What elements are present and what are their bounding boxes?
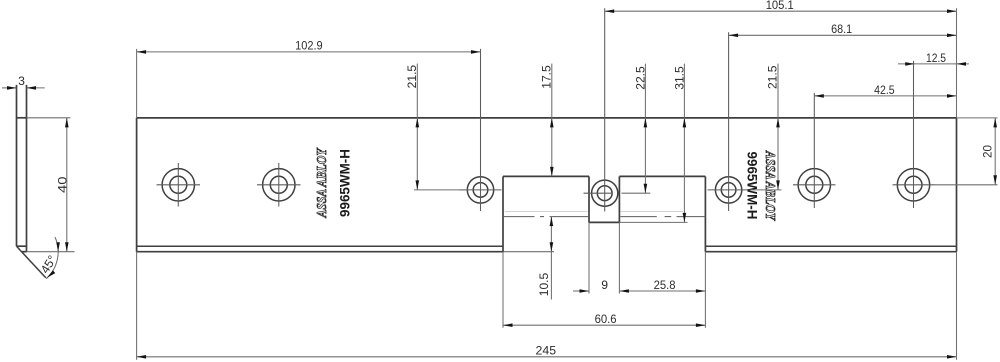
side view bottom edge extension xyxy=(27,251,75,253)
hole H6 xyxy=(893,61,935,208)
hole H3 xyxy=(460,49,502,211)
hole H4 xyxy=(708,32,750,211)
dimension 60.6 xyxy=(503,312,705,327)
left edge extension down xyxy=(136,252,138,360)
keeper box top edge right part xyxy=(619,175,705,177)
svg-text:68.1: 68.1 xyxy=(831,22,852,36)
svg-text:60.6: 60.6 xyxy=(595,312,617,326)
dimension 45 degrees arc xyxy=(38,237,60,279)
tab right edge extension down xyxy=(618,222,620,293)
keeper box left edge xyxy=(502,176,504,251)
svg-text:105.1: 105.1 xyxy=(766,0,794,12)
tab bottom edge xyxy=(589,221,619,223)
plate left edge xyxy=(136,118,138,252)
dimension 245 xyxy=(137,344,957,359)
svg-text:102.9: 102.9 xyxy=(295,39,323,53)
dimension 25.8 xyxy=(619,278,705,293)
right edge extension down xyxy=(956,252,958,360)
left edge extension up xyxy=(136,49,138,118)
hole H1 xyxy=(157,163,201,207)
svg-text:3: 3 xyxy=(18,74,25,88)
svg-text:ASSA ABLOY: ASSA ABLOY xyxy=(762,150,777,221)
keeper centerline xyxy=(503,216,705,218)
dimension 105.1 xyxy=(605,0,957,13)
svg-text:9: 9 xyxy=(601,278,608,292)
hidden edge line xyxy=(505,211,683,213)
tab bottom extension line xyxy=(619,221,687,223)
svg-text:40: 40 xyxy=(55,176,69,193)
dimension 3 xyxy=(2,74,45,90)
box right edge extension down xyxy=(704,252,706,328)
box left edge extension down xyxy=(502,252,504,328)
plate right edge xyxy=(956,118,958,252)
right edge extension up xyxy=(956,8,958,118)
side view plate outline xyxy=(17,85,27,252)
svg-text:20: 20 xyxy=(980,145,994,158)
svg-text:12.5: 12.5 xyxy=(926,51,946,65)
dimension 20 xyxy=(935,118,998,185)
dimension 22.5 xyxy=(622,64,651,194)
dimension 102.9 xyxy=(137,39,481,54)
dimension 40 xyxy=(55,118,69,252)
plate front view top edge xyxy=(137,117,957,119)
svg-text:22.5: 22.5 xyxy=(633,66,647,90)
side view top edge extension xyxy=(27,117,71,119)
tab left edge extension down xyxy=(588,222,590,293)
svg-text:21.5: 21.5 xyxy=(405,65,419,89)
dimension 68.1 xyxy=(729,22,957,37)
dimension 31.5 xyxy=(672,64,686,223)
latch hole xyxy=(584,8,618,211)
bottom edge extension inside box xyxy=(503,251,554,253)
plate fold line xyxy=(137,245,957,247)
dimension 12.5 xyxy=(898,51,969,66)
svg-text:ASSA ABLOY: ASSA ABLOY xyxy=(315,147,330,218)
svg-text:21.5: 21.5 xyxy=(766,65,780,89)
hole H5 xyxy=(793,93,836,208)
plate bottom edge xyxy=(137,251,957,253)
hole H2 xyxy=(257,163,301,207)
svg-text:245: 245 xyxy=(536,344,557,358)
svg-text:25.8: 25.8 xyxy=(654,278,676,292)
tab left edge xyxy=(588,176,590,222)
keeper box top edge left part xyxy=(503,175,589,177)
svg-text:9965WM-H: 9965WM-H xyxy=(745,152,761,220)
dimension 21.5 right xyxy=(750,64,782,190)
keeper box right edge xyxy=(704,176,706,251)
svg-text:31.5: 31.5 xyxy=(672,66,686,90)
side view 45 chamfer line xyxy=(17,246,46,277)
dimension 10.5 xyxy=(537,217,553,300)
dimension 9 xyxy=(573,278,608,293)
svg-text:17.5: 17.5 xyxy=(540,65,554,89)
dimension 21.5 left xyxy=(405,64,469,190)
dimension 42.5 xyxy=(814,83,956,98)
svg-text:9965WM-H: 9965WM-H xyxy=(337,149,353,217)
tab right edge xyxy=(618,176,620,222)
dimension 17.5 xyxy=(540,64,554,177)
svg-text:10.5: 10.5 xyxy=(537,273,551,297)
svg-text:42.5: 42.5 xyxy=(874,83,895,97)
